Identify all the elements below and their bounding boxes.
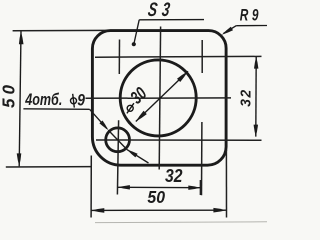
hole D9 (bottom-left, one of 4) [106, 128, 130, 152]
svg-text:32: 32 [165, 165, 183, 187]
svg-text:32: 32 [237, 88, 253, 107]
vertical centerline, bottom-right hole (extends to 32 dim) [201, 122, 203, 195]
D9 dimension tail through hole (lower-right) [108, 130, 127, 150]
extension line left (below plate) [90, 156, 92, 218]
S3 shelf line [139, 19, 204, 21]
note shelf line [23, 108, 89, 111]
vertical centerline, top-right hole [201, 40, 203, 73]
dimension line 50 (left vertical) [19, 31, 21, 166]
dimension line 50 (bottom horizontal) [91, 209, 226, 211]
R9 shelf line [236, 25, 267, 27]
svg-text:50: 50 [147, 187, 165, 207]
diameter symbol of D30 text [127, 103, 134, 113]
extension line top (plate top edge extended left) [13, 29, 107, 31]
vertical centerline of plate [159, 27, 160, 170]
hole D30 (center) [120, 60, 196, 136]
svg-text:9: 9 [77, 91, 85, 109]
dimension line 32 (bottom horizontal) [118, 186, 200, 188]
diameter symbol of note [71, 94, 77, 108]
extension line right (below plate) [225, 150, 227, 218]
horizontal centerline of plate / hole D30 [86, 97, 232, 99]
R9 leader with arrow to corner [224, 26, 237, 34]
svg-text:S3: S3 [147, 0, 177, 21]
svg-text:30: 30 [127, 84, 151, 108]
horizontal centerline, bottom holes (also extension for right 32 dim) [96, 139, 262, 141]
extension line right for 32 (from bottom-right hole centerline) [199, 180, 201, 195]
vertical centerline, top-left hole [118, 40, 120, 75]
extension line bottom (plate bottom edge extended left) [6, 166, 92, 168]
faint scan artifact line at bottom [95, 221, 267, 224]
S3 leader with end dot [134, 20, 139, 43]
dimension line 32 (right vertical) [255, 57, 257, 137]
plate outline (50x50 square, R9 corners) [92, 31, 226, 166]
svg-text:R9: R9 [240, 7, 262, 26]
svg-text:4omб.: 4omб. [24, 91, 62, 109]
svg-text:50: 50 [0, 81, 19, 108]
dimension line D30 (diagonal across center hole) [136, 71, 188, 121]
horizontal centerline, top holes (also extension for right 32 dim) [95, 55, 262, 58]
vertical centerline, bottom-left hole (extends to 32 dim) [117, 120, 118, 194]
note leader to D9 hole with arrow [90, 109, 107, 128]
